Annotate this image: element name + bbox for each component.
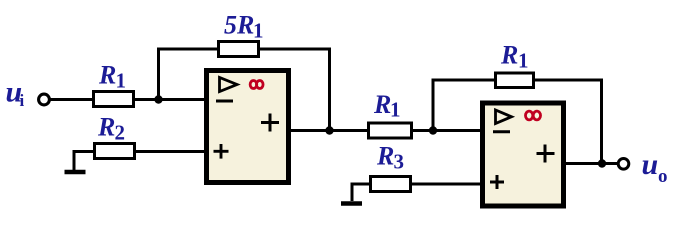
- input terminal circle: [39, 94, 50, 105]
- wire: R3 to U2 noninverting input: [411, 183, 482, 186]
- ground symbol 1: [65, 170, 86, 175]
- svg-text:1: 1: [253, 19, 264, 43]
- wire: node C up and over to feedback R1: [433, 80, 496, 131]
- label R3: [376, 142, 404, 174]
- U2 infinite gain symbol: [525, 111, 540, 120]
- wire: input terminal to R1: [48, 98, 94, 101]
- label R2: [97, 113, 125, 145]
- svg-text:o: o: [658, 166, 668, 187]
- wire: R2 to ground stub: [74, 152, 94, 171]
- svg-text:1: 1: [518, 49, 529, 73]
- wire: R1 stage2 to U2 inverting input: [412, 129, 482, 132]
- wire: R1 to U1 inverting input (through node A): [134, 98, 206, 101]
- U2 gain triangle symbol: [496, 110, 512, 124]
- junction node D (output): [598, 159, 606, 167]
- wire: R2 to U1 noninverting input: [135, 150, 206, 153]
- wire: feedback R1 over and down to output node D: [535, 80, 602, 164]
- svg-text:1: 1: [390, 98, 401, 122]
- ground symbol 2: [341, 201, 362, 206]
- op-amp U2 body: [483, 103, 564, 206]
- wire: 5R1 to node B (down right side of feedback loop): [259, 49, 330, 131]
- svg-text:i: i: [20, 91, 25, 110]
- resistor 5R1 (feedback stage 1): [219, 42, 259, 57]
- resistor R2: [95, 144, 135, 159]
- U1 infinite gain symbol: [250, 81, 263, 89]
- junction node A: [154, 95, 162, 103]
- resistor R1 (stage 1): [94, 92, 134, 107]
- svg-text:R: R: [97, 113, 115, 142]
- svg-text:1: 1: [116, 69, 127, 93]
- svg-text:R: R: [500, 41, 518, 70]
- U2 inverting input minus sign: [493, 130, 510, 133]
- node label u_o: [642, 148, 668, 187]
- label R1 (feedback stage 2): [500, 41, 529, 73]
- U1 gain triangle symbol: [220, 78, 238, 92]
- wire: R3 to ground stub: [352, 184, 370, 201]
- wire: U2 output to output terminal: [564, 162, 619, 165]
- U1 noninverting input plus sign: [214, 144, 229, 159]
- svg-text:R: R: [376, 142, 394, 171]
- svg-text:5: 5: [224, 11, 237, 40]
- junction node C: [429, 126, 437, 134]
- label 5R1: [224, 11, 264, 43]
- svg-text:R: R: [236, 11, 254, 40]
- U2 output plus sign: [537, 145, 555, 163]
- wire: U1 output to R1 (stage 2): [289, 129, 369, 132]
- svg-text:3: 3: [394, 150, 405, 174]
- resistor R1 (stage 2 input): [369, 123, 412, 138]
- op-amp U1 body: [207, 71, 289, 183]
- U2 noninverting input plus sign: [490, 175, 504, 189]
- svg-text:R: R: [98, 61, 116, 90]
- label R1 (stage 1): [98, 61, 126, 93]
- svg-text:2: 2: [115, 121, 126, 145]
- junction node B: [325, 126, 333, 134]
- output terminal circle: [618, 159, 629, 170]
- U1 inverting input minus sign: [216, 100, 233, 103]
- svg-text:u: u: [642, 148, 659, 181]
- resistor R3: [371, 177, 411, 192]
- U1 output plus sign: [261, 114, 279, 132]
- wire: node A up and over to 5R1: [159, 49, 219, 100]
- resistor R1 (feedback stage 2): [496, 73, 534, 88]
- svg-text:R: R: [373, 90, 391, 119]
- label R1 (stage 2 input): [373, 90, 401, 122]
- node label u_i: [6, 76, 25, 111]
